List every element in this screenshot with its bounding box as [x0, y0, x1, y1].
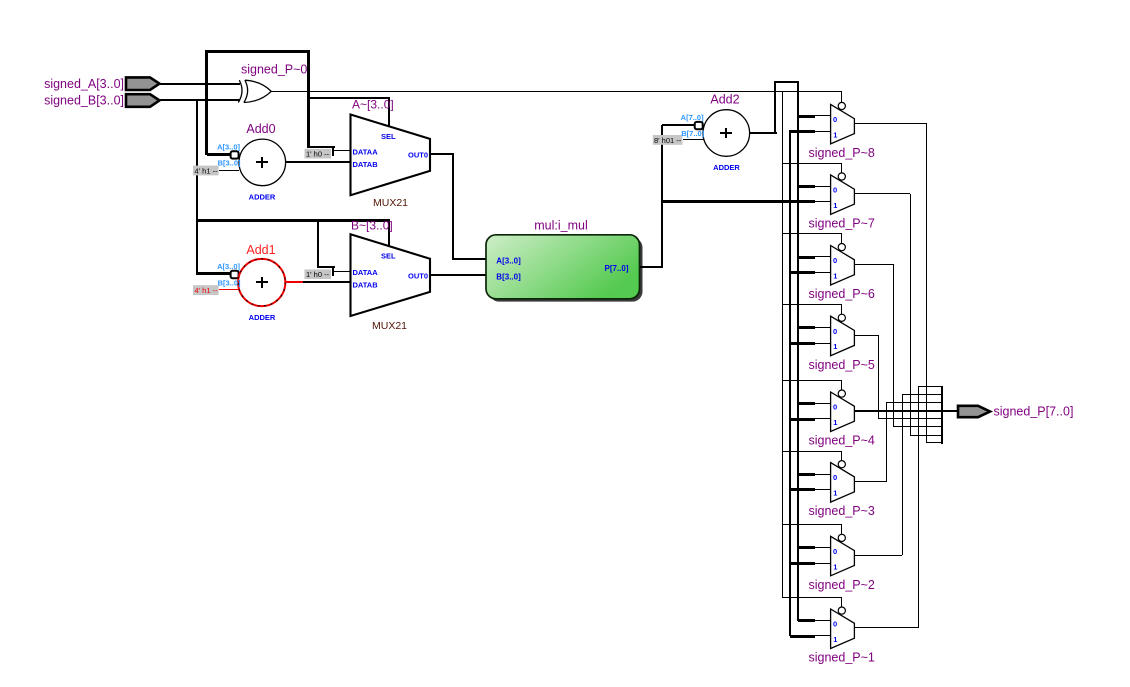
svg-text:signed_P~2: signed_P~2	[809, 578, 875, 592]
svg-text:Add1: Add1	[246, 243, 275, 257]
inverter bubble Add2 A	[695, 122, 703, 129]
constant 4'h1 (Add1 B)	[193, 285, 239, 295]
svg-text:OUT0: OUT0	[408, 271, 428, 280]
constant 8'h01 (Add2 B)	[653, 135, 704, 145]
svg-text:0: 0	[833, 403, 837, 412]
wire Add1 output to MUX21 B DATAB	[285, 281, 350, 283]
wire MUX21 A output to mul A	[430, 153, 486, 260]
svg-text:0: 0	[833, 115, 837, 124]
svg-text:DATAB: DATAB	[353, 160, 379, 169]
svg-text:ADDER: ADDER	[713, 163, 740, 172]
svg-text:A~[3..0]: A~[3..0]	[352, 97, 394, 111]
svg-text:signed_A[3..0]: signed_A[3..0]	[44, 77, 124, 91]
node label signed_P~8	[809, 146, 875, 160]
svg-text:4' h1 --: 4' h1 --	[195, 166, 219, 175]
node label signed_P~1	[809, 651, 875, 665]
svg-text:SEL: SEL	[381, 252, 396, 261]
node label signed_P~5	[809, 358, 875, 372]
svg-text:A[3..0]: A[3..0]	[496, 257, 521, 266]
mux signed_P~6	[783, 233, 854, 285]
wire to Add1 A input	[198, 272, 231, 275]
svg-text:OUT0: OUT0	[408, 151, 428, 160]
wire to SEL of MUX21 B	[388, 221, 390, 248]
svg-text:4' h1 --: 4' h1 --	[195, 286, 219, 295]
svg-text:0: 0	[833, 473, 837, 482]
svg-text:signed_P~5: signed_P~5	[809, 358, 875, 372]
svg-text:MUX21: MUX21	[372, 320, 407, 332]
wire to SEL of MUX21 A	[308, 97, 390, 128]
wire signed_P~4 output	[854, 410, 958, 412]
svg-text:ADDER: ADDER	[249, 193, 276, 202]
svg-text:signed_P~4: signed_P~4	[809, 434, 875, 448]
svg-text:DATAB: DATAB	[353, 280, 379, 289]
svg-text:1' h0 --: 1' h0 --	[306, 270, 330, 279]
svg-text:A[7..0]: A[7..0]	[681, 113, 704, 122]
inverter bubble Add0 A	[231, 151, 239, 158]
wire Add0 output to MUX21 A DATAB	[286, 161, 350, 163]
svg-text:B[3..0]: B[3..0]	[218, 278, 241, 287]
mux B~[3..0] MUX21	[351, 219, 431, 332]
wire XOR output (select net)	[271, 91, 842, 92]
svg-text:SEL: SEL	[381, 132, 396, 141]
bus joiner grid signed_P	[879, 386, 943, 444]
svg-text:signed_P~7: signed_P~7	[809, 217, 875, 231]
svg-text:1' h0 --: 1' h0 --	[306, 150, 330, 159]
svg-text:mul:i_mul: mul:i_mul	[534, 218, 588, 232]
mux signed_P~5	[783, 304, 854, 356]
node label signed_P~2	[809, 578, 875, 592]
constant 1'h0 (MUX21 B DATAA)	[305, 269, 332, 279]
svg-text:1: 1	[833, 342, 837, 351]
wire mul P to mux 1-rail	[662, 200, 831, 203]
wire signed_P~6 output	[854, 264, 894, 427]
wire to DATAA of MUX21 A	[308, 146, 351, 156]
adder Add1 (highlighted red)	[217, 243, 285, 322]
mux A~[3..0] MUX21	[351, 97, 431, 208]
svg-text:0: 0	[833, 256, 837, 265]
svg-text:0: 0	[833, 327, 837, 336]
wire signed_P~1 output	[854, 387, 919, 628]
adder Add0	[217, 122, 286, 201]
svg-text:signed_B[3..0]: signed_B[3..0]	[44, 94, 124, 108]
rail product (1 inputs)	[789, 130, 791, 636]
input pin signed_B[3..0]	[44, 94, 159, 108]
svg-text:A[3..0]: A[3..0]	[217, 262, 240, 271]
wire MUX21 B output to mul B	[430, 274, 486, 276]
constant 4'h1 (Add0 B)	[193, 166, 239, 176]
node label signed_P~4	[809, 434, 875, 448]
svg-text:Add0: Add0	[246, 122, 275, 136]
svg-text:B[3..0]: B[3..0]	[496, 272, 521, 281]
input pin signed_A[3..0]	[44, 77, 159, 91]
svg-text:DATAA: DATAA	[353, 268, 379, 277]
rail negated product (0 inputs)	[797, 82, 799, 621]
svg-text:8' h01 --: 8' h01 --	[654, 136, 682, 145]
svg-text:1: 1	[833, 418, 837, 427]
wire signed_A branch up-over (node A top)	[205, 50, 310, 155]
svg-text:0: 0	[833, 620, 837, 629]
output pin signed_P[7..0]	[958, 404, 1073, 418]
wire to DATAA of MUX21 B	[317, 221, 351, 276]
constant 1'h0 (MUX21 A DATAA)	[305, 149, 332, 159]
svg-text:signed_P~1: signed_P~1	[809, 651, 875, 665]
mux signed_P~1	[783, 597, 854, 649]
svg-text:B[7..0]: B[7..0]	[681, 129, 704, 138]
wire signed_B branch down (node B)	[196, 100, 390, 275]
svg-text:P[7..0]: P[7..0]	[604, 264, 628, 273]
node label signed_P~3	[809, 504, 875, 518]
mux signed_P~7	[783, 163, 854, 214]
node label signed_P~6	[809, 287, 875, 301]
svg-text:signed_P~8: signed_P~8	[809, 146, 875, 160]
svg-text:Add2: Add2	[710, 93, 739, 107]
wire to Add0 A input	[207, 153, 231, 156]
svg-text:1: 1	[833, 562, 837, 571]
svg-text:ADDER: ADDER	[249, 313, 276, 322]
svg-text:signed_P~3: signed_P~3	[809, 504, 875, 518]
svg-text:1: 1	[833, 489, 837, 498]
instance mul:i_mul	[486, 218, 643, 301]
svg-text:1: 1	[833, 201, 837, 210]
wire signed_P~7 output	[854, 193, 911, 436]
svg-text:0: 0	[833, 186, 837, 195]
svg-text:A[3..0]: A[3..0]	[217, 142, 240, 151]
mux signed_P~2	[783, 524, 854, 576]
svg-text:B~[3..0]: B~[3..0]	[351, 219, 393, 233]
svg-text:signed_P~6: signed_P~6	[809, 287, 875, 301]
wire signed_A to XOR	[160, 83, 240, 85]
wire signed_P~5 output	[854, 335, 879, 419]
mux signed_P~8	[790, 91, 854, 144]
svg-text:MUX21: MUX21	[373, 197, 408, 209]
svg-text:signed_P[7..0]: signed_P[7..0]	[994, 404, 1074, 418]
wire signed_P~2 output	[854, 395, 903, 556]
adder Add2	[681, 93, 750, 172]
mux signed_P~3	[783, 451, 854, 502]
wire signed_B to XOR	[160, 99, 240, 101]
wire bus to output pin	[942, 410, 958, 412]
svg-text:1: 1	[833, 130, 837, 139]
svg-text:0: 0	[833, 547, 837, 556]
svg-text:signed_P~0: signed_P~0	[241, 63, 307, 77]
mux signed_P~4	[783, 380, 854, 432]
wire signed_P~3 output	[854, 403, 887, 482]
svg-text:DATAA: DATAA	[353, 148, 379, 157]
xor gate signed_P~0	[238, 63, 307, 103]
wire Add2 output to 0-rail	[750, 81, 799, 134]
node label signed_P~7	[809, 217, 875, 231]
svg-text:1: 1	[833, 272, 837, 281]
inverter bubble Add1 A	[231, 271, 239, 278]
svg-text:1: 1	[833, 635, 837, 644]
svg-text:B[3..0]: B[3..0]	[218, 159, 241, 168]
wire mul P output	[640, 125, 663, 268]
wire mul P to Add2 A	[662, 124, 695, 126]
wire signed_P~8 output	[854, 123, 927, 443]
rail select from XOR	[782, 91, 783, 598]
